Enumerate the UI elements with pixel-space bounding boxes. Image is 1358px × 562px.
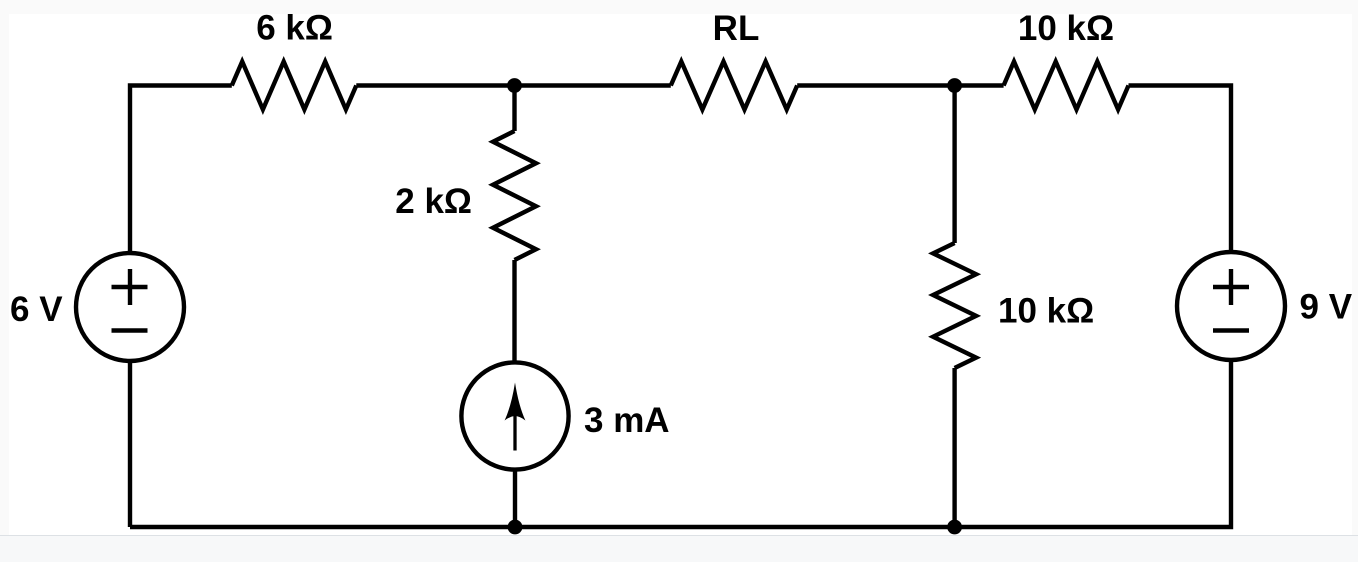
- resistor 10 kOhm horizontal top: [1004, 62, 1129, 110]
- wire from node A to RL: [515, 83, 671, 87]
- wire bottom middle segment: [515, 525, 955, 529]
- svg-text:3 mA: 3 mA: [584, 401, 670, 440]
- 6V minus sign: [112, 328, 148, 332]
- voltage source 6V circle: [76, 253, 184, 361]
- svg-text:2 kΩ: 2 kΩ: [395, 182, 472, 221]
- 9V plus sign: [1213, 269, 1249, 305]
- junction dot bottom right: [947, 520, 962, 535]
- svg-text:6 V: 6 V: [10, 290, 63, 329]
- resistor 2 kOhm vertical: [493, 131, 536, 260]
- svg-text:6 kΩ: 6 kΩ: [256, 9, 333, 48]
- svg-text:9 V: 9 V: [1300, 288, 1353, 327]
- svg-text:RL: RL: [713, 9, 760, 48]
- current source 3mA circle: [461, 362, 568, 469]
- 9V minus sign: [1213, 328, 1249, 332]
- wire top-left corner (left branch top): [130, 86, 232, 254]
- wire bottom right segment: [955, 360, 1231, 527]
- node A junction dot: [507, 78, 522, 93]
- resistor 6 kOhm horizontal: [232, 62, 356, 110]
- wire from current source to bottom: [513, 469, 517, 527]
- wire from RL to node B: [797, 83, 954, 87]
- junction dot bottom middle: [508, 520, 523, 535]
- wire bottom left segment: [130, 525, 515, 529]
- resistor 10 kOhm vertical: [933, 243, 976, 368]
- svg-text:10 kΩ: 10 kΩ: [1018, 9, 1114, 48]
- resistor RL horizontal: [671, 62, 797, 110]
- wire top-right corner: [1129, 86, 1232, 253]
- wire from 2k to current source: [512, 260, 516, 363]
- wire from node B to 10k top: [955, 83, 1004, 87]
- 6V plus sign: [112, 269, 148, 305]
- wire from 6k to node A: [356, 83, 514, 87]
- svg-text:10 kΩ: 10 kΩ: [998, 292, 1094, 331]
- wire from 10k vertical to bottom: [952, 368, 956, 527]
- node B junction dot: [947, 78, 962, 93]
- current source arrowhead: [505, 383, 526, 421]
- wire from node B down to 10k vertical: [952, 86, 956, 244]
- voltage source 9V circle: [1177, 252, 1285, 360]
- wire left branch bottom: [128, 361, 132, 527]
- wire from node A down to 2k: [512, 86, 516, 132]
- current source arrow shaft: [513, 412, 516, 451]
